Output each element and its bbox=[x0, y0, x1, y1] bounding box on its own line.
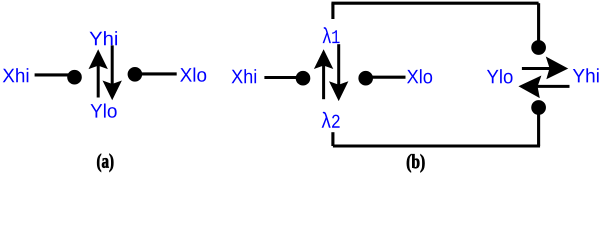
label Yhi (figure b right branch) bbox=[573, 68, 599, 82]
wire Xlo lead (figure a) bbox=[135, 72, 177, 75]
wire loop right upper (figure b) bbox=[537, 3, 540, 47]
node right dot (figure a) bbox=[128, 67, 143, 82]
wire loop right lower (figure b) bbox=[537, 108, 540, 147]
caption (a) bbox=[97, 154, 113, 172]
arrow up lambda2-to-lambda1 (figure b) bbox=[315, 50, 333, 99]
label lambda1 (figure b) bbox=[323, 27, 340, 43]
label lambda2 (figure b) bbox=[322, 112, 340, 128]
wire loop top (figure b) bbox=[331, 2, 538, 5]
node bottom dot right branch (figure b) bbox=[531, 100, 546, 115]
node top dot right branch (figure b) bbox=[531, 40, 546, 55]
label Ylo (figure a) bbox=[91, 103, 117, 117]
wire Xlo lead (figure b) bbox=[366, 76, 406, 79]
arrow left Yhi-to-Ylo (figure b) bbox=[519, 76, 569, 97]
label Xhi (figure a) bbox=[3, 68, 29, 82]
arrow right Ylo-to-Yhi (figure b) bbox=[522, 57, 568, 78]
arrow up Ylo-to-Yhi (figure a) bbox=[89, 50, 107, 97]
caption (b) bbox=[407, 154, 425, 172]
node right dot (figure b) bbox=[358, 71, 373, 86]
wire Xhi lead (figure b) bbox=[264, 76, 303, 79]
arrow down lambda1-to-lambda2 (figure b) bbox=[330, 44, 348, 100]
label Xhi (figure b) bbox=[232, 69, 257, 83]
label Xlo (figure a) bbox=[180, 67, 206, 81]
wire loop bottom (figure b) bbox=[333, 144, 540, 147]
wire top stub above lambda1 (figure b) bbox=[331, 3, 334, 19]
node left dot (figure b) bbox=[296, 71, 311, 86]
wire bottom stub below lambda2 (figure b) bbox=[331, 132, 334, 146]
wire Xhi lead (figure a) bbox=[35, 73, 75, 76]
node left dot (figure a) bbox=[67, 70, 82, 85]
label Ylo (figure b right branch) bbox=[487, 69, 513, 83]
label Yhi (figure a) bbox=[90, 31, 117, 45]
arrow down Yhi-to-Ylo (figure a) bbox=[103, 45, 121, 99]
label Xlo (figure b) bbox=[407, 69, 432, 83]
